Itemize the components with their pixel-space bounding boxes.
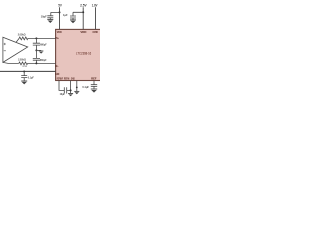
pin label REF	[91, 79, 97, 81]
pin label GND bottom	[71, 79, 75, 81]
IC U1 LTC2368-16 body	[56, 29, 102, 80]
wire R2 to IN- pin	[28, 62, 56, 64]
ground under C6	[21, 81, 27, 84]
ground under REFIN	[68, 94, 73, 97]
capacitor C2 1uF on 2.5V rail	[70, 16, 76, 20]
svg-text:680pF: 680pF	[40, 58, 47, 62]
svg-text:REF: REF	[91, 79, 97, 81]
svg-text:IN+: IN+	[56, 37, 60, 40]
capacitor C6 value 1uF	[28, 75, 34, 79]
node junction on ground rail	[23, 71, 25, 73]
node junction on 5V rail	[59, 11, 61, 13]
pin label VDD2	[80, 31, 86, 34]
resistor R1 2k value label	[18, 32, 26, 36]
pin label GND left	[55, 73, 59, 76]
svg-text:VDD: VDD	[80, 31, 86, 34]
wire ground rail to GND pin	[0, 70, 56, 72]
node junction on GND wire	[76, 87, 78, 89]
net 5V supply label	[58, 3, 62, 7]
pin label IN-	[55, 65, 59, 68]
svg-text:IN–: IN–	[55, 65, 59, 68]
capacitor C1 10uF on 5V rail	[47, 16, 53, 19]
wire R1 to IN+ pin	[28, 37, 56, 39]
wire stub left from 5V junction	[51, 12, 60, 15]
wire 1.8V rail vertical to OVDD pin	[95, 7, 97, 29]
svg-text:LTC2368-16: LTC2368-16	[76, 52, 91, 56]
resistor R2 2k zigzag	[19, 62, 28, 65]
wire 5V rail vertical to VDD pin	[59, 7, 61, 29]
svg-text:2.05kΩ: 2.05kΩ	[18, 57, 26, 61]
node junction REFIN cap	[70, 89, 72, 91]
capacitor C4 680pF on IN+	[33, 43, 40, 50]
op-amp minus input sign	[4, 50, 6, 52]
svg-text:0.1µF: 0.1µF	[28, 75, 34, 79]
svg-text:GND: GND	[71, 79, 75, 81]
ground under C1	[47, 20, 53, 23]
capacitor C8 value 0.1uF	[82, 85, 89, 89]
ground under GND pin	[74, 91, 79, 94]
svg-text:1µF: 1µF	[63, 13, 68, 17]
wire 2.5V rail vertical	[82, 7, 84, 29]
svg-text:VDD: VDD	[57, 31, 62, 34]
net VCM label above ground rail	[22, 66, 27, 68]
capacitor C5 680pF on IN-	[33, 58, 40, 63]
wire junction down to cap C	[23, 71, 25, 75]
node junction mid ground tap	[35, 49, 37, 51]
net 1.8V supply label	[92, 4, 98, 8]
svg-text:VCM: VCM	[22, 66, 27, 68]
wire stub right to mid ground	[36, 49, 41, 51]
capacitor C8 0.1uF REF	[91, 85, 97, 89]
ground mid between caps	[39, 51, 44, 54]
ground under C8	[91, 89, 97, 93]
capacitor C5 value 680pF	[40, 58, 47, 62]
node junction on 2.5V rail	[82, 11, 84, 13]
svg-text:REFIN: REFIN	[64, 79, 69, 81]
wire mid node down to cap B	[35, 50, 37, 58]
svg-text:2.5V: 2.5V	[80, 4, 87, 8]
capacitor C7 10uF REFBUF (horizontal)	[64, 87, 70, 93]
resistor R2 2k value label	[18, 57, 26, 61]
capacitor C7 value 10uF	[60, 92, 66, 96]
wire REFIN pin down	[70, 81, 72, 94]
capacitor C4 value 680pF	[40, 43, 47, 47]
wire stub left from 2.5V junction	[73, 12, 83, 16]
IC U1 part number label LTC2368-16	[76, 52, 91, 56]
svg-text:1.8V: 1.8V	[92, 4, 98, 8]
op-amp U2 triangle	[3, 37, 28, 62]
net 2.5V supply label	[80, 4, 87, 8]
pin label OVDD	[93, 31, 99, 34]
svg-text:OVDD: OVDD	[93, 31, 99, 34]
ground under C2	[70, 20, 76, 23]
capacitor C6 1uF on rail	[21, 76, 27, 81]
svg-text:680pF: 680pF	[40, 43, 47, 47]
wire feedback stub from op-amp	[3, 62, 19, 63]
op-amp plus input sign	[4, 43, 6, 45]
wire junction down to cap A	[35, 38, 37, 43]
pin label REFIN	[64, 79, 69, 81]
svg-text:10µF: 10µF	[41, 14, 47, 18]
svg-text:REFBUF: REFBUF	[57, 79, 64, 81]
node junction IN- filter	[35, 62, 37, 64]
capacitor C1 value 10uF	[41, 14, 47, 18]
svg-text:10µF: 10µF	[60, 92, 66, 96]
svg-text:2.05kΩ: 2.05kΩ	[18, 32, 26, 36]
node junction IN+ filter	[35, 37, 37, 39]
pin label IN+	[56, 37, 60, 40]
resistor R1 2k zigzag	[16, 37, 28, 42]
pin label VDD	[57, 31, 62, 34]
capacitor C2 value 1uF	[63, 13, 68, 17]
wire GND pin down	[76, 81, 78, 92]
svg-text:0.1µF: 0.1µF	[82, 85, 89, 89]
svg-text:GND: GND	[55, 73, 59, 76]
pin label REFBUF	[57, 79, 64, 81]
wire REF pin down	[93, 81, 95, 85]
wire REFBUF pin down and right	[59, 81, 64, 91]
